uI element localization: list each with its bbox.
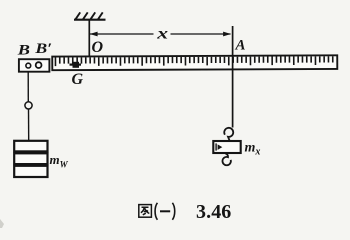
vertical line at A (extension + string) xyxy=(232,26,234,128)
top hook of scale xyxy=(224,128,233,141)
parenthesis ) xyxy=(172,203,174,220)
svg-text:A: A xyxy=(235,38,246,54)
ruler body xyxy=(52,55,337,70)
ring on left string xyxy=(25,102,32,109)
weight stack m_W xyxy=(14,141,47,177)
svg-text:O: O xyxy=(92,39,104,56)
bottom hook of scale xyxy=(222,153,230,165)
dimension line x from O to A xyxy=(90,27,231,39)
left string upper xyxy=(27,72,29,102)
svg-text:G: G xyxy=(72,71,84,88)
centre of gravity marker G xyxy=(70,62,82,68)
pivot line at O xyxy=(88,20,90,71)
svg-text:3.46: 3.46 xyxy=(196,201,231,223)
scale body (weight m_x) xyxy=(213,141,240,153)
ruler (metre stick), slightly tilted xyxy=(52,55,337,70)
hole B' xyxy=(36,62,42,68)
hand-drawn 图 glyph xyxy=(139,205,152,218)
ceiling support with hatching xyxy=(74,12,106,19)
ruler ticks xyxy=(55,56,332,66)
left end piece with holes xyxy=(19,59,50,71)
left string lower xyxy=(28,109,30,141)
svg-text:x: x xyxy=(156,25,169,43)
mark inside scale body xyxy=(215,143,222,150)
一 glyph xyxy=(160,210,170,212)
svg-text:B: B xyxy=(17,41,30,58)
hole B xyxy=(26,63,31,68)
corner smudge bottom-left xyxy=(0,219,4,228)
caption 图(一) 3.46 xyxy=(139,201,232,223)
parenthesis ( xyxy=(155,203,157,220)
svg-text:B′: B′ xyxy=(34,39,52,56)
